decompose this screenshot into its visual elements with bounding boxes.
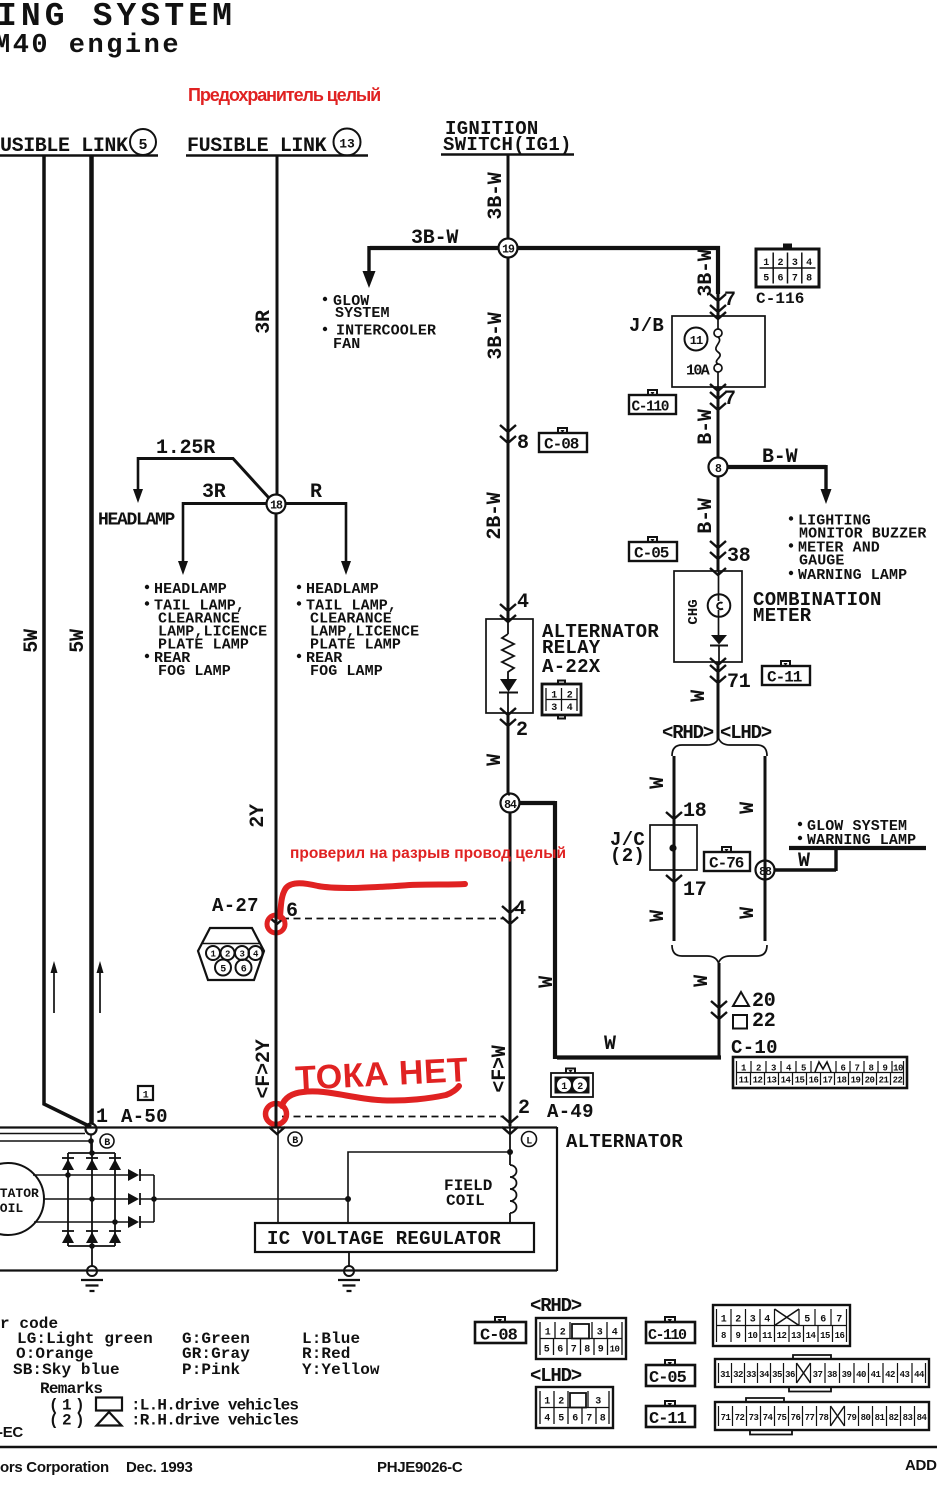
node 18 [267,495,286,514]
trio rail and output [140,1175,348,1222]
svg-text:1: 1 [551,691,557,702]
wire 5W line B [89,156,94,1124]
node 88 [756,861,775,880]
branch RHD wire [673,756,676,941]
svg-text:42: 42 [885,1370,895,1380]
svg-text:7: 7 [586,1414,592,1425]
svg-text:11: 11 [739,1076,750,1086]
svg-text:WARNING LAMP: WARNING LAMP [798,567,907,584]
svg-text:13: 13 [767,1076,777,1086]
svg-text:B-W: B-W [695,409,718,445]
svg-text:6: 6 [778,274,784,285]
wire W to glow warning [774,848,836,871]
ground bridge [91,1246,93,1266]
svg-text:20: 20 [865,1076,875,1086]
svg-text:2: 2 [516,719,528,742]
svg-text:L: L [526,1137,532,1148]
svg-text:W: W [647,777,670,789]
svg-text:8: 8 [869,1064,874,1074]
svg-text:33: 33 [746,1370,756,1380]
connector C-116 [756,244,819,288]
remark triangle symbol [97,1412,122,1426]
svg-text:5: 5 [544,1345,550,1356]
svg-text:79: 79 [847,1413,857,1423]
wire 3B-W ignition column to relay [507,257,510,619]
svg-text:16: 16 [809,1076,819,1086]
svg-text:B: B [292,1136,298,1147]
L wire and field coil [509,1126,511,1165]
wire B-W below J/B [717,387,720,457]
remark triangle pin 20 [733,992,749,1006]
svg-text:A-50: A-50 [121,1106,168,1128]
connector C-10 pin grid [733,1057,907,1088]
connector C-08 LHD pinout [536,1387,613,1428]
wire 3R branch left [183,502,267,505]
svg-text:3: 3 [792,258,798,269]
connector C-11 symbol [762,661,810,687]
connector C-08 RHD pinout [536,1318,626,1359]
svg-text:4: 4 [612,1328,618,1339]
svg-text:80: 80 [861,1413,871,1423]
svg-text:2B-W: 2B-W [484,492,507,539]
svg-text:13: 13 [339,137,355,152]
svg-text:C-110: C-110 [648,1327,687,1344]
svg-text:W: W [737,907,760,919]
alternator box [0,1127,557,1271]
svg-text:12: 12 [777,1331,787,1341]
svg-text:PHJE9026-C: PHJE9026-C [377,1459,463,1476]
svg-text:3: 3 [597,1328,603,1339]
alternator relay A-22X box [486,619,533,713]
svg-text:C-76: C-76 [709,855,744,873]
svg-text:37: 37 [813,1370,823,1380]
svg-text:C-110: C-110 [632,400,669,416]
wire W to C-10 [718,963,721,1057]
rectifier bridge rails [68,1141,115,1246]
svg-text:2: 2 [225,950,230,960]
connector A-27 [198,928,264,980]
svg-text:3B-W: 3B-W [411,227,458,250]
svg-text:FOG LAMP: FOG LAMP [158,663,231,680]
svg-text:21: 21 [879,1076,890,1086]
svg-text:17: 17 [683,879,707,902]
svg-text:<F>2Y: <F>2Y [253,1039,276,1098]
footer rule [0,1446,937,1448]
svg-text:3: 3 [551,703,557,714]
svg-text:Y:Yellow: Y:Yellow [302,1361,380,1379]
wire 3B-W down to J/B [716,246,720,294]
svg-text:7: 7 [855,1064,860,1074]
svg-text:38: 38 [727,545,751,568]
svg-text:22: 22 [893,1076,903,1086]
svg-text:-EC: -EC [0,1424,23,1441]
current arrow A [53,972,55,1013]
svg-text:Remarks: Remarks [40,1380,102,1398]
combination meter box [674,571,742,662]
wire 3B-W horizontal [370,246,498,250]
svg-text:2: 2 [577,1082,583,1093]
svg-text:CHG: CHG [686,599,702,624]
wire 3R fusible link 13 [276,156,279,494]
svg-text:43: 43 [900,1370,910,1380]
svg-text:W: W [536,976,559,988]
svg-text:ADDI: ADDI [905,1457,937,1474]
svg-text:19: 19 [502,244,515,257]
svg-text:35: 35 [772,1370,782,1380]
red scribble lower [266,1104,287,1125]
terminal L circle label [522,1132,537,1147]
brace top [672,738,767,756]
svg-text:7: 7 [836,1315,842,1326]
svg-text:10: 10 [748,1331,758,1341]
wire W relay to node 84 [508,713,510,794]
svg-text:71: 71 [727,671,751,694]
svg-text:1: 1 [96,1106,108,1129]
connector C-110 pinout [713,1305,850,1346]
svg-text:<F>W: <F>W [489,1045,512,1092]
svg-text:2: 2 [735,1315,741,1326]
svg-text:SYSTEM: SYSTEM [335,305,390,322]
remark symbol square 1 above A-50 [138,1086,153,1100]
svg-text:FAN: FAN [333,336,360,353]
svg-text:6: 6 [557,1345,563,1356]
relay resistor [502,619,514,679]
svg-text:SB:Sky blue: SB:Sky blue [13,1361,120,1379]
svg-text:FOG LAMP: FOG LAMP [310,663,383,680]
svg-text:<LHD>: <LHD> [720,722,772,744]
svg-text:J/B: J/B [629,315,664,337]
connector C-08 symbol [539,428,587,454]
svg-text:39: 39 [842,1370,852,1380]
svg-text:W: W [604,1033,616,1056]
svg-text:<RHD>: <RHD> [530,1295,582,1317]
trio diodes [128,1169,139,1181]
brace bottom [672,945,767,963]
connector C-05 symbol bottom [646,1360,695,1388]
arrow to lighting [824,465,827,489]
svg-text:B: B [104,1138,110,1149]
svg-text:32: 32 [733,1370,743,1380]
svg-text:2Y: 2Y [247,804,270,828]
svg-text:2: 2 [558,1397,564,1408]
connector A-49 [551,1069,593,1098]
terminal B circle label [100,1134,114,1148]
wire B-W right of node 8 [727,465,826,469]
glow warning list [798,822,802,826]
svg-text:STATOR: STATOR [0,1186,39,1201]
svg-text:SWITCH(IG1): SWITCH(IG1) [443,134,572,156]
svg-text:83: 83 [903,1413,913,1423]
node 8 [709,458,728,477]
svg-text:15: 15 [820,1331,830,1341]
svg-text:84: 84 [917,1413,928,1423]
glow system list [323,297,327,301]
stator coil circle [0,1163,44,1235]
svg-text:4: 4 [514,898,526,921]
wire W node84 down [509,812,512,1126]
svg-text:HEADLAMP: HEADLAMP [98,511,176,531]
connector C-11 symbol bottom [646,1401,695,1429]
remark square symbol [96,1398,122,1411]
svg-text:10A: 10A [686,363,710,380]
svg-text:1: 1 [561,1082,567,1093]
svg-text:B-W: B-W [695,498,718,534]
svg-text:M40 engine: M40 engine [0,31,181,61]
svg-text:3: 3 [240,950,245,960]
svg-text:Предохранитель целый: Предохранитель целый [188,85,380,105]
IC voltage regulator [255,1223,534,1252]
svg-text:7: 7 [724,289,736,312]
svg-text:2: 2 [518,1097,530,1120]
terminal B2 circle label [288,1132,302,1146]
svg-text:18: 18 [837,1076,847,1086]
svg-text:4: 4 [544,1414,550,1425]
svg-text:2: 2 [756,1064,761,1074]
svg-text:4: 4 [517,591,529,614]
svg-text:36: 36 [785,1370,795,1380]
svg-text:IC VOLTAGE REGULATOR: IC VOLTAGE REGULATOR [267,1228,501,1250]
svg-text:3B-W: 3B-W [485,172,508,219]
svg-text:1.25R: 1.25R [156,437,215,460]
connector C-76 symbol [704,847,750,873]
svg-text:9: 9 [598,1345,604,1356]
svg-text:11: 11 [762,1331,773,1341]
headlamp list left [145,585,149,589]
svg-text:8: 8 [600,1414,606,1425]
svg-text:5: 5 [804,1315,810,1326]
lighting list [789,516,793,520]
svg-text:R: R [310,481,322,504]
svg-text:3B-W: 3B-W [695,249,718,296]
svg-text:10: 10 [893,1064,903,1074]
B sense wire to regulator [277,1127,279,1223]
svg-text:3R: 3R [253,310,276,334]
svg-text:34: 34 [759,1370,770,1380]
fuse 11 10A [685,328,708,351]
svg-text:15: 15 [795,1076,805,1086]
svg-text:5: 5 [138,137,147,154]
svg-text:C-11: C-11 [767,669,802,687]
connector C-05 symbol [629,537,677,563]
svg-text:C-05: C-05 [649,1369,687,1388]
svg-text:14: 14 [806,1331,817,1341]
svg-text:3: 3 [750,1315,756,1326]
svg-text:41: 41 [871,1370,882,1380]
connector C-08 symbol bottom [475,1317,526,1346]
branch LHD wire [764,756,767,941]
svg-text:38: 38 [827,1370,837,1380]
svg-text:10: 10 [610,1345,620,1355]
junction connector J/C (2) [666,812,682,819]
svg-text:ors Corporation: ors Corporation [0,1459,109,1476]
wire colour code legend [0,1315,380,1430]
svg-text:7: 7 [724,388,736,411]
wire 1.25R branch [138,459,269,499]
svg-text:12: 12 [753,1076,763,1086]
svg-text:6: 6 [241,965,247,976]
bridge diodes top row [62,1159,74,1170]
svg-text:WARNING LAMP: WARNING LAMP [807,832,916,849]
svg-text:16: 16 [835,1331,845,1341]
svg-text:40: 40 [856,1370,866,1380]
connector C-05 pinout [715,1355,929,1392]
wire ignition 3B-W [507,155,510,238]
bridge diodes bottom row [62,1232,74,1243]
svg-text:18: 18 [270,500,283,513]
svg-text:<RHD>: <RHD> [662,722,714,744]
svg-text:3R: 3R [202,481,226,504]
svg-text:METER: METER [753,605,812,627]
svg-text:7: 7 [571,1345,577,1356]
svg-text:73: 73 [749,1413,759,1423]
svg-text:77: 77 [805,1413,815,1423]
node 84 [501,794,520,813]
charge lamp [718,571,720,635]
svg-text:(2): (2) [49,1412,88,1430]
svg-text:4: 4 [806,258,812,269]
svg-text:1: 1 [545,1328,551,1339]
field feed lines [348,1152,510,1223]
svg-text:C-116: C-116 [756,290,805,308]
svg-text:5: 5 [558,1414,564,1425]
svg-text:C-05: C-05 [634,545,669,563]
svg-text:13: 13 [791,1331,801,1341]
svg-text:19: 19 [851,1076,861,1086]
svg-text:72: 72 [735,1413,745,1423]
svg-text:HEADLAMP: HEADLAMP [306,581,379,598]
dashed line lower [282,1116,504,1118]
svg-text:71: 71 [721,1413,732,1423]
svg-text:1: 1 [721,1315,727,1326]
connector C-110 symbol bottom [646,1317,695,1344]
arrow to glow system [367,246,370,272]
wire 2Y below node 18 [275,513,278,1127]
svg-text:2: 2 [567,691,573,702]
svg-text:P:Pink: P:Pink [182,1361,241,1379]
svg-text:5: 5 [801,1064,806,1074]
svg-text:1: 1 [763,258,769,269]
svg-text:A-27: A-27 [212,895,259,917]
svg-text:82: 82 [889,1413,899,1423]
connector C-11 pinout [715,1398,929,1435]
svg-text:17: 17 [823,1076,833,1086]
wire 5W line A [44,156,91,1127]
remark square pin 22 [733,1015,747,1029]
ground regulator [348,1252,350,1266]
svg-text:C-10: C-10 [731,1037,778,1059]
svg-text:31: 31 [720,1370,731,1380]
svg-text:22: 22 [752,1010,776,1033]
svg-text:3B-W: 3B-W [485,312,508,359]
svg-text:HEADLAMP: HEADLAMP [154,581,227,598]
diode in meter [711,635,727,645]
svg-text:C-11: C-11 [649,1410,687,1429]
svg-text:6: 6 [820,1315,826,1326]
svg-text:<LHD>: <LHD> [530,1365,582,1387]
svg-text:C-08: C-08 [544,436,579,454]
svg-text:COIL: COIL [446,1192,485,1210]
svg-text:4: 4 [764,1315,770,1326]
svg-text:6: 6 [572,1414,578,1425]
svg-text:A-22X: A-22X [542,656,601,678]
svg-text:1: 1 [544,1397,550,1408]
svg-text:5: 5 [763,274,769,285]
svg-text:W: W [484,754,507,766]
svg-text:W: W [691,975,714,987]
svg-text:5W: 5W [21,629,44,653]
wire W horizontal at bottom [557,1055,721,1059]
wire B-W node8 to meter [717,476,720,571]
svg-text:Dec. 1993: Dec. 1993 [126,1459,193,1476]
svg-text:ING SYSTEM: ING SYSTEM [0,0,236,35]
current arrow B [99,972,101,1013]
red scribble upper [267,915,285,933]
svg-text:8: 8 [806,274,812,285]
svg-text:ALTERNATOR: ALTERNATOR [566,1131,683,1153]
svg-text:44: 44 [914,1370,925,1380]
svg-text:4: 4 [567,703,573,714]
svg-text:84: 84 [504,799,517,812]
svg-text:74: 74 [763,1413,774,1423]
wire W node84 branch right [519,801,555,1059]
connector mark pin 7 [710,294,726,312]
svg-text:3: 3 [771,1064,776,1074]
svg-text:W: W [737,802,760,814]
svg-text:3: 3 [595,1397,601,1408]
wire R branch right [285,502,346,505]
svg-text:7: 7 [792,274,798,285]
svg-text:6: 6 [286,900,298,923]
svg-text:5W: 5W [67,629,90,653]
svg-text::R.H.drive vehicles: :R.H.drive vehicles [131,1412,298,1430]
connector C-110 symbol [629,390,676,416]
internal B wires [0,1134,91,1154]
wire W below meter [717,662,720,740]
svg-text:1: 1 [143,1091,149,1102]
svg-text:9: 9 [736,1331,741,1341]
svg-text:14: 14 [781,1076,792,1086]
svg-text:проверил на разрыв провод целы: проверил на разрыв провод целый [290,845,566,862]
svg-text:6: 6 [841,1064,846,1074]
svg-text:2: 2 [778,258,784,269]
headlamp list right [297,585,301,589]
svg-text:B-W: B-W [762,446,798,469]
terminal 1 B [86,1124,97,1135]
relay diode [500,679,517,692]
svg-text:76: 76 [791,1413,801,1423]
svg-text:C-08: C-08 [480,1327,518,1346]
svg-text:88: 88 [759,866,772,879]
svg-text:8: 8 [584,1345,590,1356]
dashed line A-27 to 4 [282,918,504,920]
svg-text:9: 9 [883,1064,888,1074]
svg-text:81: 81 [875,1413,886,1423]
svg-text:78: 78 [819,1413,829,1423]
connector A-22X pins [542,681,581,719]
svg-text:2: 2 [560,1328,566,1339]
svg-text:8: 8 [517,432,529,455]
svg-text:11: 11 [690,334,703,348]
svg-text:W: W [688,690,711,702]
svg-text:COIL: COIL [0,1201,23,1216]
svg-text:8: 8 [721,1331,726,1341]
svg-text:(2): (2) [610,845,645,867]
stator phase wires [33,1175,128,1222]
node 19 [499,239,518,258]
svg-text:18: 18 [683,800,707,823]
svg-text:75: 75 [777,1413,787,1423]
svg-text:5: 5 [220,965,226,976]
